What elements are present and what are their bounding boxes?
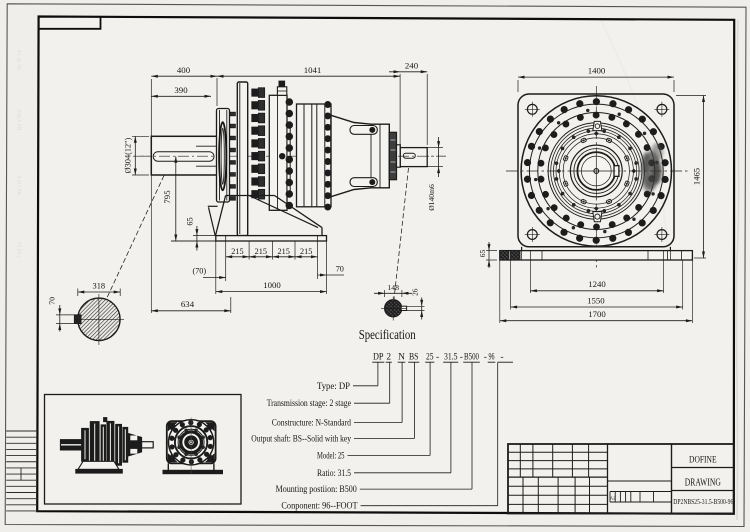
dim 1700 ext xyxy=(499,260,501,323)
dim 634 ext xyxy=(150,176,152,314)
dim 1550 ext xyxy=(510,260,512,310)
designation tokens xyxy=(373,353,504,363)
centerline over keyway xyxy=(140,155,216,157)
dim (70) ext xyxy=(215,241,217,294)
svg-text:A2: A2 xyxy=(610,496,616,501)
inset box xyxy=(45,395,242,505)
dim 1400 ext xyxy=(517,80,519,92)
svg-text:Ratio: 31.5: Ratio: 31.5 xyxy=(317,468,351,478)
svg-text:Ø304(12"): Ø304(12") xyxy=(124,137,133,173)
bolt column 4 (ring bolts right) xyxy=(325,102,331,211)
dim 400 xyxy=(151,75,217,77)
svg-text:390: 390 xyxy=(174,85,188,95)
output shaft keyway xyxy=(153,152,214,162)
svg-text:318: 318 xyxy=(93,282,106,291)
input shaft collar xyxy=(397,145,401,167)
mini front view xyxy=(163,418,223,474)
detail dim 26 ext xyxy=(407,305,425,307)
title block grid xyxy=(508,444,734,514)
svg-text:(70): (70) xyxy=(192,267,206,276)
svg-text:05 7F 13: 05 7F 13 xyxy=(17,50,23,70)
corner bolt hole TL xyxy=(527,104,537,114)
ring gear stack xyxy=(297,104,332,207)
dim 390 xyxy=(151,95,211,97)
hub keyway xyxy=(614,166,619,177)
detail dim 70 ext xyxy=(56,314,74,316)
svg-text:-: - xyxy=(436,353,439,363)
corner bolt hole TR xyxy=(657,104,667,114)
dim D304 extension lines xyxy=(132,135,149,137)
spec row Ratio leader xyxy=(354,472,451,474)
outer bolt ring xyxy=(524,99,668,244)
dim 1240 ext xyxy=(529,260,531,293)
diamond markers xyxy=(556,131,636,211)
spec row Transmission stage leader xyxy=(354,402,390,404)
svg-text:Specification: Specification xyxy=(359,327,416,342)
spec row Conponent leader xyxy=(361,505,498,507)
corner bolt hole BR xyxy=(657,230,667,240)
front base hatched cells xyxy=(500,251,509,260)
dim 65 side ext xyxy=(193,235,216,237)
svg-text:Conponent: 96--FOOT: Conponent: 96--FOOT xyxy=(281,501,358,511)
svg-text:1041: 1041 xyxy=(304,65,322,75)
foot left outer slant xyxy=(216,196,226,236)
dim 65 side line xyxy=(196,226,198,251)
section leader to big detail xyxy=(105,176,164,303)
svg-text:Type: DP: Type: DP xyxy=(317,381,350,391)
dim 65 front line xyxy=(488,242,490,268)
detail dim 318 ext xyxy=(77,289,79,297)
bearing housing (output side) xyxy=(217,109,230,203)
detail dim 26 line xyxy=(421,298,423,320)
front view centerlines xyxy=(595,86,597,268)
svg-text:65: 65 xyxy=(478,250,487,258)
faint margin scan text xyxy=(17,50,23,258)
dim 1041 xyxy=(217,75,400,77)
carrier center bolt xyxy=(280,154,285,159)
svg-text:70: 70 xyxy=(336,264,344,273)
hub spigot circle xyxy=(581,156,611,186)
svg-text:795: 795 xyxy=(162,190,172,204)
input housing cone xyxy=(331,115,389,196)
mini side view xyxy=(61,418,154,474)
section leader to small detail xyxy=(394,168,409,299)
dim 1400 xyxy=(518,76,674,78)
front pedestal xyxy=(521,247,523,251)
output shaft xyxy=(151,136,217,175)
dim 1240 xyxy=(530,290,663,292)
left margin ruler scale xyxy=(6,431,37,511)
svg-text:DP: DP xyxy=(373,353,384,363)
detail dim 70 line xyxy=(59,305,61,332)
svg-text:31.5: 31.5 xyxy=(444,353,458,363)
paper crease topright xyxy=(600,18,668,250)
svg-text:DP2NBS25-31.5-B500-96: DP2NBS25-31.5-B500-96 xyxy=(673,498,733,506)
output shaft section keyway xyxy=(74,315,81,324)
dim 795 line xyxy=(175,156,177,241)
svg-text:215: 215 xyxy=(300,247,312,256)
side view centerline xyxy=(133,155,446,157)
dim 240 extension lines xyxy=(399,74,401,149)
dim D140 ext xyxy=(427,147,443,149)
output shaft section crosslines xyxy=(98,294,100,345)
dim D304 line xyxy=(134,136,136,175)
detail dim 148 ext xyxy=(384,290,386,297)
spec row Output shaft leader xyxy=(354,437,415,439)
svg-text:26: 26 xyxy=(410,288,419,296)
spec row Type leader xyxy=(353,385,378,387)
svg-text:Transmission stage: 2 stage: Transmission stage: 2 stage xyxy=(267,398,351,408)
dim D140 line xyxy=(438,137,440,177)
mounting flange plate xyxy=(237,82,247,236)
cone slot upper xyxy=(350,126,377,135)
top plug detail xyxy=(593,121,602,130)
svg-text:04 115 0: 04 115 0 xyxy=(17,175,23,194)
svg-text:1700: 1700 xyxy=(588,309,606,319)
svg-text:25: 25 xyxy=(426,353,434,363)
dim 215x4 row xyxy=(226,241,318,260)
carrier housing body xyxy=(269,95,287,210)
corner bolt hole BL xyxy=(527,230,537,240)
svg-text:96: 96 xyxy=(489,353,495,363)
detail dim 318 xyxy=(78,291,120,293)
svg-text:1400: 1400 xyxy=(588,66,606,76)
dim 240 xyxy=(389,71,427,73)
dim 65 front ext xyxy=(486,250,497,252)
spec row Constructure leader xyxy=(354,422,402,424)
input seal flange xyxy=(389,132,396,179)
dim 634 xyxy=(151,310,231,312)
dim 400 extension lines xyxy=(150,79,152,136)
output shaft section circle xyxy=(78,298,120,340)
svg-text:400: 400 xyxy=(177,65,191,75)
detail dim 148 xyxy=(374,292,412,294)
cone slot lower xyxy=(350,178,377,187)
base plate (side view) xyxy=(216,236,327,241)
front view concentric rings xyxy=(521,96,671,246)
dim 1700 xyxy=(500,320,693,322)
svg-text:-: - xyxy=(460,353,463,363)
svg-text:70: 70 xyxy=(48,297,57,305)
paper crease right xyxy=(736,20,738,520)
bolt column 3 (ring bolts left) xyxy=(286,99,293,209)
second bolt ring xyxy=(538,112,655,230)
svg-text:B5 170 8: B5 170 8 xyxy=(17,110,23,130)
svg-text:65: 65 xyxy=(186,217,195,225)
svg-text:1240: 1240 xyxy=(588,279,606,289)
oil plug xyxy=(279,81,285,87)
bottom plug detail xyxy=(593,212,602,222)
input shaft section crosslines xyxy=(392,297,394,321)
svg-text:-: - xyxy=(484,353,487,363)
foot left ledge xyxy=(208,205,218,207)
spec row Mounting postiion leader xyxy=(360,488,472,490)
svg-text:240: 240 xyxy=(405,60,419,70)
svg-text:1465: 1465 xyxy=(692,168,702,185)
input shaft xyxy=(400,148,427,167)
svg-text:Constructure: N-Standard: Constructure: N-Standard xyxy=(272,418,352,428)
spec row Model leader xyxy=(348,454,431,456)
bolt column 1 (small bolts) xyxy=(230,112,235,200)
front flange square xyxy=(518,94,674,247)
svg-text:Ø140m6: Ø140m6 xyxy=(427,184,436,211)
foot top edge xyxy=(226,195,275,197)
svg-text:215: 215 xyxy=(278,247,290,256)
hub screw lugs xyxy=(563,138,629,204)
svg-text:634: 634 xyxy=(181,299,195,309)
svg-text:7 03 52: 7 03 52 xyxy=(17,242,23,259)
svg-text:Model: 25: Model: 25 xyxy=(317,450,345,460)
output seal ellipse xyxy=(219,122,226,190)
svg-text:DOFINE: DOFINE xyxy=(689,454,717,465)
centerline over input keyway xyxy=(398,155,446,157)
small screws ring outer xyxy=(534,109,658,233)
svg-text:BS: BS xyxy=(409,353,419,363)
svg-text:-: - xyxy=(500,353,503,363)
svg-text:Output shaft: BS--Solid with: Output shaft: BS--Solid with key xyxy=(251,433,351,443)
dim 1465 ext xyxy=(676,95,706,97)
designation underlines xyxy=(372,361,513,363)
bolt column 2 (hex bolts) xyxy=(252,88,265,199)
scan blob artifact xyxy=(642,143,664,192)
hub bore xyxy=(577,152,615,190)
svg-text:1000: 1000 xyxy=(263,280,281,290)
dim 70 right xyxy=(318,274,345,276)
dim 70 right ext xyxy=(317,260,319,280)
svg-text:1550: 1550 xyxy=(587,296,605,306)
svg-text:215: 215 xyxy=(255,247,267,256)
front base dividers xyxy=(541,251,543,260)
svg-text:N: N xyxy=(398,353,405,363)
output shaft bore lines xyxy=(196,145,217,147)
input shaft section keyway xyxy=(401,306,406,310)
center mark xyxy=(594,169,599,174)
svg-text:Mounting postiion: B500: Mounting postiion: B500 xyxy=(276,484,358,494)
dim 1550 xyxy=(511,306,683,308)
front base plate xyxy=(500,251,693,260)
top-left tab xyxy=(39,17,101,29)
input shaft section circle xyxy=(385,300,402,317)
small screws ring inner xyxy=(555,130,638,213)
svg-text:B500: B500 xyxy=(464,353,479,363)
input shaft keyway xyxy=(403,153,415,158)
dim 1465 line xyxy=(703,96,705,259)
dim 1000 xyxy=(216,291,327,293)
svg-text:148: 148 xyxy=(387,283,399,292)
svg-text:2: 2 xyxy=(386,353,391,363)
foot gusset slants xyxy=(249,196,318,228)
svg-text:215: 215 xyxy=(231,247,243,256)
svg-text:DRAWING: DRAWING xyxy=(685,478,721,489)
